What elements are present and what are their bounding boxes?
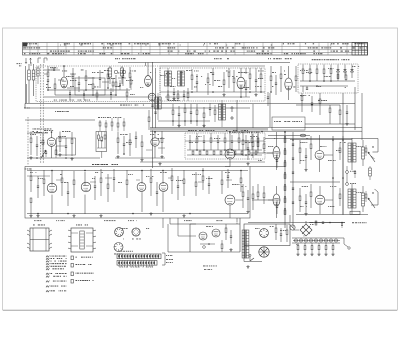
- divider resistor: [311, 243, 313, 246]
- resistor in rectifier box: [309, 69, 311, 74]
- ladder resistor: [284, 150, 286, 154]
- divider resistor: [325, 243, 327, 246]
- ratio det extra: [209, 107, 211, 109]
- sound amp parts: [30, 138, 32, 143]
- small circle terminal: [203, 246, 206, 249]
- legend symbol: [46, 258, 47, 260]
- sync lower component: [213, 151, 215, 155]
- left wire y120: [25, 119, 95, 121]
- ladder cap: [292, 157, 294, 159]
- legend symbol: [46, 290, 47, 292]
- IF strip extra: [167, 95, 169, 100]
- pin tick left: [27, 247, 30, 249]
- parts table right grid: [352, 43, 368, 56]
- tuner label: [120, 104, 122, 107]
- bus wire vertical: [152, 62, 154, 168]
- divider loop: [324, 239, 327, 242]
- right area caps: [267, 96, 269, 98]
- yoke bracket top: [377, 139, 379, 153]
- grid feed wire: [250, 152, 273, 154]
- ht rectifier bridge: [300, 224, 312, 236]
- legend cap symbol: [71, 272, 73, 276]
- label video detector: [268, 57, 269, 60]
- table extra marks: [59, 44, 62, 47]
- tuner shielded coil: [108, 68, 111, 77]
- deflection coil bottom: [362, 193, 365, 206]
- strip bracket: [162, 252, 165, 254]
- tuner inner wires: [44, 73, 48, 75]
- legend symbol: [46, 261, 47, 263]
- component value labels: [50, 66, 51, 69]
- labels under amplifier box: [34, 219, 35, 222]
- sync separator box: [185, 133, 265, 159]
- divider loop: [294, 239, 297, 242]
- left margin label mid: [24, 107, 26, 110]
- audio box parts left: [30, 176, 32, 181]
- divider frame: [292, 237, 340, 239]
- grounds in box: [30, 214, 32, 216]
- detector components: [270, 76, 272, 81]
- left dashed drop: [27, 117, 29, 165]
- sync lower component: [220, 151, 222, 155]
- metal rect extra: [306, 87, 308, 89]
- left label in box: [25, 168, 26, 171]
- left streak wire: [30, 62, 32, 66]
- ladder resistor: [284, 162, 286, 166]
- resistor in rectifier box: [323, 69, 325, 74]
- parts table entries text: [24, 43, 26, 44]
- heater socket: [260, 229, 269, 238]
- ladder resistor: [284, 138, 286, 142]
- horiz output tube V16: [315, 151, 324, 160]
- wire to right bus: [305, 123, 355, 125]
- fine tuning trimmer: [53, 68, 55, 70]
- audio box parts right: [150, 178, 152, 183]
- tuner wiring: [44, 69, 60, 71]
- label metal rectifier: [312, 58, 313, 61]
- sync component: [196, 138, 198, 143]
- legend cap symbol: [71, 256, 73, 260]
- tuner extra parts: [69, 92, 71, 94]
- sync takeoff verticals: [236, 100, 238, 132]
- parts table frame: [23, 43, 368, 56]
- deflection coil top: [362, 147, 365, 159]
- ratio det components: [172, 110, 174, 115]
- bottom long bus: [248, 222, 345, 224]
- focus ground: [230, 248, 232, 250]
- boost cap: [354, 171, 356, 173]
- legend symbol: [46, 276, 47, 278]
- amplifier unit box: [25, 167, 250, 219]
- pin tick can: [68, 230, 71, 231]
- right vertical bus: [332, 136, 334, 214]
- legend symbol: [46, 263, 47, 265]
- yoke terminals: [372, 146, 373, 147]
- antenna arrows: [25, 58, 27, 64]
- socket diagram C: [114, 243, 123, 252]
- IF transformer T2: [178, 71, 181, 86]
- sound amp tube V6: [47, 138, 56, 147]
- power transformer: [242, 230, 245, 258]
- top horizontal feed: [118, 62, 290, 64]
- fuse circle: [290, 225, 295, 230]
- divider resistor: [332, 243, 334, 246]
- diode: [337, 71, 340, 73]
- sync lower wires: [187, 149, 262, 151]
- sync component: [257, 138, 259, 143]
- ladder cap: [292, 143, 294, 145]
- volume pot arrow: [41, 150, 46, 158]
- grid feed wire lower: [252, 199, 273, 201]
- IF grounds: [173, 97, 175, 99]
- legend symbol: [46, 268, 47, 270]
- wire strip to power: [177, 228, 179, 236]
- divider connector: [340, 237, 344, 239]
- left text under wire: [33, 128, 34, 131]
- sync lower component: [248, 151, 250, 155]
- sound takeoff dark cluster: [120, 68, 123, 76]
- focus tube A: [199, 232, 207, 240]
- divider resistor: [304, 243, 306, 246]
- af parts: [117, 138, 119, 143]
- legend symbol: [46, 256, 47, 258]
- sync lower component: [227, 151, 229, 155]
- rectifier box internal wires: [300, 80, 355, 82]
- tuner osc tube V2: [148, 93, 156, 101]
- disc diodes: [230, 107, 234, 109]
- vision IF box: [160, 68, 265, 101]
- mains label: [203, 265, 205, 268]
- horiz osc tube V17: [315, 195, 325, 205]
- af extra: [117, 155, 119, 157]
- sync lower component: [241, 151, 243, 155]
- amplifier unit label: [92, 163, 94, 166]
- screened lead ribbon: [150, 128, 268, 131]
- resistor in rectifier box: [302, 69, 304, 74]
- mains switch: [249, 256, 251, 261]
- vert osc tube V13: [273, 147, 280, 160]
- socket diagram A: [115, 228, 124, 237]
- long feed to yoke: [265, 138, 378, 140]
- sync lower component: [206, 151, 208, 155]
- ladder resistor: [284, 174, 286, 178]
- IF transformer T1: [165, 71, 168, 86]
- strip labels: [119, 250, 121, 253]
- divider loop: [334, 239, 337, 242]
- agc line ticks: [54, 99, 56, 102]
- divider resistor: [318, 243, 320, 246]
- width coil: [369, 168, 372, 176]
- wires down to power unit: [162, 218, 164, 228]
- page bottom shadow: [3, 310, 397, 312]
- tuner coil left: [28, 70, 31, 80]
- pin tick left: [27, 243, 30, 245]
- diode: [344, 71, 347, 73]
- discriminator transformer: [219, 104, 222, 120]
- resistor on bus: [148, 117, 150, 122]
- ladder cap: [292, 171, 294, 173]
- power unit box: [244, 224, 290, 246]
- ladder resistor: [284, 198, 286, 202]
- sync component: [189, 140, 191, 142]
- sync component: [224, 138, 226, 143]
- legend symbol: [46, 273, 47, 275]
- osc section filler parts: [112, 82, 114, 86]
- video amp coupling: [296, 104, 340, 106]
- sound amp extra: [45, 151, 47, 153]
- frame amp tube V11: [159, 183, 168, 192]
- pin tick left: [27, 234, 30, 236]
- rf amp tube V1: [61, 77, 68, 88]
- ribbon caption: [232, 131, 233, 134]
- audio box extra wires: [27, 175, 50, 177]
- third left coil: [37, 68, 39, 76]
- contrast box: [272, 117, 305, 130]
- focus parts: [225, 228, 227, 233]
- legend symbol: [46, 286, 47, 288]
- decoupling cap at bus: [151, 104, 153, 106]
- metal rectifier box: [298, 64, 358, 93]
- left margin label top: [17, 62, 18, 65]
- sound amp sub-box: [57, 138, 76, 155]
- left margin vertical: [24, 104, 26, 109]
- sync component: [231, 140, 233, 142]
- left feed vertical: [25, 66, 27, 104]
- resistor in rectifier box: [316, 69, 318, 74]
- terminal strip upper: [117, 254, 161, 259]
- ladder cap: [292, 201, 294, 203]
- sync lower component: [234, 151, 236, 155]
- deflection extra: [247, 162, 249, 164]
- audio box mid wire: [27, 170, 248, 172]
- bus second: [25, 107, 250, 109]
- left of output tubes parts: [299, 148, 301, 153]
- audio box bottom wire: [27, 213, 248, 215]
- wire af to sync: [140, 161, 265, 163]
- bus fourth: [150, 130, 362, 132]
- power bottom wires: [244, 261, 262, 263]
- bus B+ main: [25, 103, 355, 105]
- divider resistor: [297, 243, 299, 246]
- ladder resistor: [284, 186, 286, 190]
- power ground: [247, 265, 249, 267]
- af tube V7: [151, 138, 159, 146]
- components between tubes: [242, 140, 244, 145]
- sound filter box: [96, 132, 107, 152]
- legend cap symbol: [71, 279, 73, 283]
- mixer tube V3: [145, 76, 152, 87]
- trimmer circles: [114, 70, 118, 74]
- wires af: [115, 157, 165, 159]
- label vision channel: [214, 57, 215, 60]
- wires ratio det: [158, 120, 210, 122]
- wire power to divider: [303, 235, 305, 236]
- bus third: [150, 127, 362, 129]
- core adjust arrow top: [368, 152, 375, 162]
- coupling parts after V4: [249, 74, 251, 79]
- pin tick can: [68, 242, 71, 243]
- sound takeoff coil: [155, 97, 157, 109]
- focus block box: [189, 224, 191, 252]
- IF amp tube V4: [237, 77, 245, 89]
- rectifier socket: [259, 247, 269, 257]
- line amp tube V15: [273, 194, 280, 206]
- power parts: [275, 228, 277, 233]
- sync component: [245, 140, 247, 142]
- tuner components: [47, 72, 49, 77]
- tuner sub-box: [75, 78, 105, 95]
- sect label: [54, 110, 57, 113]
- strip lower ticks: [118, 265, 120, 267]
- tuner text labels: [48, 69, 50, 72]
- test point circles: [346, 171, 349, 174]
- bus down from rectifier: [354, 87, 356, 130]
- divider loop: [314, 239, 317, 242]
- fuse link top: [268, 135, 310, 137]
- ladder resistor: [284, 210, 286, 214]
- resistor in rectifier box: [330, 69, 332, 74]
- output transformer frame: [348, 189, 351, 208]
- diode: [351, 71, 354, 73]
- video out parts: [339, 110, 341, 115]
- pin tick can: [68, 248, 71, 249]
- video det tube V5: [285, 78, 292, 90]
- socket diagram B: [132, 228, 140, 236]
- pin tick left: [27, 230, 30, 232]
- table left block: [23, 43, 28, 47]
- core adjust arrow bottom: [368, 198, 375, 208]
- frame osc tube V10: [137, 183, 146, 192]
- sync lower component: [199, 151, 201, 155]
- legend symbol: [46, 281, 47, 283]
- ladder cap: [292, 187, 294, 189]
- sync lower component: [255, 151, 257, 155]
- audio tube V9: [81, 182, 91, 192]
- IF box top extra line: [160, 65, 265, 67]
- yoke bracket bottom: [375, 189, 379, 192]
- terminal strip lower: [117, 261, 157, 266]
- divider loop: [309, 239, 312, 242]
- cluster above sound filter: [99, 122, 101, 126]
- if can diagram: [71, 228, 93, 252]
- sync lower component: [192, 151, 194, 155]
- feeder twin lead: [40, 64, 42, 163]
- sync component: [203, 140, 205, 142]
- parts table columns: [29, 43, 31, 56]
- top right small parts: [315, 221, 317, 225]
- balun symbol: [37, 58, 39, 63]
- sync component: [238, 138, 240, 143]
- frame bottom tag: [350, 211, 360, 214]
- divider loop: [304, 239, 307, 242]
- more value labels: [46, 83, 48, 86]
- IF strip components: [191, 75, 193, 80]
- sync component: [217, 140, 219, 142]
- right small resistors: [365, 148, 367, 152]
- focus tube B: [212, 229, 220, 237]
- sync component: [251, 138, 253, 143]
- wire left of power box: [167, 224, 169, 252]
- legend cap symbol: [71, 263, 73, 267]
- sound amp labels: [32, 130, 34, 133]
- sync component: [210, 138, 212, 143]
- tuner unit box: [36, 66, 160, 102]
- divider loop: [329, 239, 332, 242]
- right area horizontals: [290, 139, 352, 141]
- right drop vertical: [361, 93, 363, 140]
- output transformer line: [348, 143, 351, 162]
- label sound channel: [115, 57, 117, 60]
- line osc tube V14: [225, 195, 235, 205]
- audio tube V8: [47, 183, 57, 193]
- wires sound amp: [27, 157, 100, 159]
- b+ ladder: [284, 132, 286, 228]
- sync box label: [188, 129, 190, 132]
- legend symbol: [46, 266, 47, 268]
- pin tick can: [68, 236, 71, 237]
- divider loop: [299, 239, 302, 242]
- vert amp tube V12: [225, 149, 235, 159]
- output transformer diagram: [30, 228, 49, 251]
- divider loop: [319, 239, 322, 242]
- wires IF area: [160, 91, 265, 93]
